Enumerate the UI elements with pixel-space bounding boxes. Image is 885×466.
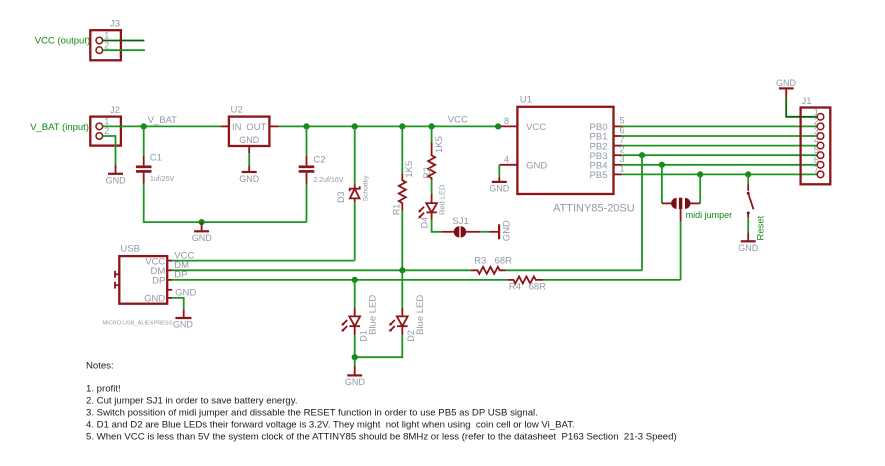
wire PB2 to J1 pin4 — [622, 145, 818, 147]
wire PB4 to J1 pin6 — [622, 164, 818, 166]
svg-text:6: 6 — [814, 155, 819, 165]
svg-text:J1: J1 — [802, 96, 812, 107]
ground (below Reset) — [738, 232, 759, 253]
svg-text:GND: GND — [192, 233, 213, 243]
node PB4/jumper — [659, 162, 665, 168]
wire PB5 to J1 pin7 — [622, 173, 818, 175]
svg-text:SJ1: SJ1 — [452, 216, 468, 227]
wire J3 pin1 — [103, 40, 145, 42]
ground (below U2) — [239, 166, 260, 184]
svg-text:V_BAT: V_BAT — [148, 115, 178, 126]
wire gnd to J1 pin1 — [786, 98, 817, 117]
pin NC — [167, 289, 172, 291]
svg-text:OUT: OUT — [246, 122, 266, 133]
wire VCC rail — [279, 125, 501, 127]
wire C1 top — [143, 126, 145, 156]
svg-text:ATTINY85-20SU: ATTINY85-20SU — [553, 202, 635, 214]
ground (above J1) — [776, 78, 797, 98]
svg-text:2: 2 — [104, 126, 109, 136]
svg-text:GND: GND — [526, 161, 547, 172]
svg-text:VCC: VCC — [526, 122, 546, 133]
svg-text:Red LED: Red LED — [437, 184, 446, 215]
svg-text:7: 7 — [814, 164, 819, 174]
wire USB VCC riser — [354, 260, 356, 262]
pin 4 GND — [499, 164, 517, 166]
regulator U2 — [221, 105, 279, 154]
svg-text:3. Switch possition of midi ju: 3. Switch possition of midi jumper and d… — [86, 408, 538, 419]
svg-text:1: 1 — [814, 107, 819, 117]
wire D1 bottom — [354, 335, 356, 357]
svg-text:2. Cut jumper SJ1 in order to: 2. Cut jumper SJ1 in order to save batte… — [86, 396, 298, 407]
pin 8 VCC — [500, 125, 517, 127]
wire midi jumper left riser — [661, 165, 663, 204]
pin 7 PB2 — [614, 145, 622, 147]
svg-text:GND: GND — [738, 243, 759, 253]
wire SJ1 to gnd — [480, 231, 489, 233]
svg-text:GND: GND — [239, 174, 260, 184]
svg-text:5. When VCC is less than 5V th: 5. When VCC is less than 5V the system c… — [86, 432, 677, 443]
svg-text:5: 5 — [814, 145, 819, 155]
switch Reset — [747, 174, 767, 240]
LED D4 red — [418, 184, 446, 228]
wire D3 top — [354, 126, 356, 184]
svg-text:J3: J3 — [110, 18, 120, 29]
capacitor C2 — [299, 155, 344, 185]
svg-text:4: 4 — [504, 154, 509, 164]
wire reset to gnd — [747, 218, 749, 233]
wire J3 pin2 — [103, 49, 145, 51]
wire USB DP — [172, 279, 507, 281]
svg-text:8: 8 — [504, 116, 509, 126]
IC U1 ATTINY85 — [499, 94, 634, 214]
svg-text:GND: GND — [489, 184, 510, 194]
svg-text:1. profit!: 1. profit! — [86, 383, 121, 394]
wire D1 top — [354, 280, 356, 308]
svg-text:2: 2 — [814, 116, 819, 126]
wire USB GND — [172, 298, 183, 310]
svg-text:DP: DP — [152, 276, 165, 287]
resistor R2 — [422, 136, 445, 180]
node DM/R1/D2 — [399, 267, 405, 273]
wire PB1 to J1 pin3 — [622, 135, 818, 137]
svg-text:2.2uf/16V: 2.2uf/16V — [313, 177, 343, 184]
svg-text:Blue LED: Blue LED — [415, 295, 426, 335]
wire R1 bottom to DM — [401, 211, 403, 271]
svg-text:C2: C2 — [313, 155, 325, 166]
ground (below J2) — [106, 164, 127, 185]
ground (below C1/C2) — [192, 222, 213, 243]
capacitor C1 — [136, 153, 175, 184]
svg-text:1: 1 — [104, 31, 109, 41]
svg-text:GND: GND — [173, 320, 194, 330]
pin 2 PB3 — [614, 154, 622, 156]
LED D1 blue — [341, 295, 378, 342]
svg-text:VCC: VCC — [448, 114, 468, 125]
svg-text:R2: R2 — [422, 167, 432, 179]
node R1 tap — [399, 123, 405, 129]
svg-text:Notes:: Notes: — [86, 360, 114, 371]
wire R2 to D4 — [431, 180, 433, 194]
wire PB0 to J1 pin2 — [622, 125, 818, 127]
svg-text:68R: 68R — [529, 281, 547, 292]
svg-text:GND: GND — [345, 377, 366, 387]
ground (below USB) — [173, 310, 194, 330]
wire D2 bottom — [355, 335, 403, 357]
svg-text:VCC (output): VCC (output) — [35, 36, 90, 47]
node U1 VCC tap — [495, 123, 501, 129]
svg-text:1K5: 1K5 — [404, 161, 415, 178]
node R2 tap — [429, 123, 435, 129]
pin 6 PB1 — [614, 135, 622, 137]
wire USB DM — [172, 269, 471, 271]
connector J1 — [801, 96, 831, 184]
shield stubs — [115, 271, 119, 278]
wire U2 gnd — [248, 153, 250, 165]
svg-text:U2: U2 — [231, 105, 243, 116]
wire R3 to PB3 riser — [506, 269, 642, 271]
ground (right of SJ1, rotated) — [490, 220, 513, 241]
pin DM — [167, 269, 172, 271]
solder jumper midi — [662, 198, 732, 222]
resistor R4 — [508, 276, 546, 292]
connector USB — [103, 244, 173, 327]
svg-text:5: 5 — [620, 116, 625, 126]
wire D4 to SJ1 — [432, 220, 442, 232]
wire D3 bottom to USB VCC — [354, 202, 356, 260]
diode D3 schottky — [336, 175, 370, 203]
svg-text:4. D1 and D2 are Blue LEDs the: 4. D1 and D2 are Blue LEDs their forward… — [86, 420, 575, 431]
wire C2 bottom — [306, 184, 308, 223]
wire R2 top — [431, 126, 433, 142]
pin 1 PB5 — [614, 173, 622, 175]
svg-text:D4: D4 — [420, 217, 430, 229]
resistor R3 — [471, 255, 512, 274]
notes text — [86, 360, 677, 442]
wire C2 top — [306, 126, 308, 156]
pin GND — [167, 297, 172, 299]
svg-text:1K5: 1K5 — [434, 136, 445, 153]
svg-text:3: 3 — [814, 126, 819, 136]
wire USB VCC — [172, 260, 354, 262]
svg-text:Schottky: Schottky — [363, 175, 370, 202]
pin VCC — [167, 260, 172, 262]
pin 5 PB0 — [614, 125, 622, 127]
wire gnd stub — [354, 357, 356, 366]
pin DP — [167, 279, 172, 281]
svg-text:PB5: PB5 — [590, 170, 608, 181]
svg-text:GND: GND — [776, 78, 797, 88]
svg-text:1uf/25V: 1uf/25V — [150, 176, 174, 183]
svg-text:GND: GND — [106, 175, 127, 185]
svg-text:MICRO-USB_ALIEXPRESS: MICRO-USB_ALIEXPRESS — [103, 320, 173, 326]
wire DM riser — [641, 155, 643, 270]
wire D2 column from DM — [401, 270, 403, 308]
LED D2 blue — [389, 295, 426, 342]
wire C1 bottom to gnd rail — [144, 184, 307, 223]
svg-text:midi jumper: midi jumper — [686, 210, 733, 220]
svg-text:C1: C1 — [150, 153, 162, 164]
svg-text:USB: USB — [120, 244, 140, 255]
wire midi jumper right riser — [699, 174, 701, 203]
node D1/D2 gnd — [352, 354, 358, 360]
wire R4 to midi center riser — [543, 279, 680, 281]
svg-text:IN: IN — [232, 122, 242, 133]
connector J2 — [90, 105, 121, 146]
node gnd junction — [199, 219, 205, 225]
svg-text:R3: R3 — [474, 255, 486, 266]
wire midi center to DP — [680, 222, 682, 280]
wire R1 top — [401, 126, 403, 173]
svg-text:R1: R1 — [391, 204, 401, 216]
node DP/D1 — [352, 277, 358, 283]
svg-text:D3: D3 — [336, 191, 346, 203]
node C2 tap — [303, 123, 309, 129]
node PB5/jumper — [697, 171, 703, 177]
node PB5/reset — [745, 171, 751, 177]
svg-text:GND: GND — [239, 135, 260, 145]
pin 3 PB4 — [614, 164, 622, 166]
wire PB3 to J1 pin5 — [622, 154, 818, 156]
wire J2 pin1 to U2 IN — [103, 125, 221, 127]
ground (below U1) — [489, 177, 510, 194]
resistor R1 — [391, 161, 414, 215]
svg-text:V_BAT (input): V_BAT (input) — [30, 122, 89, 133]
svg-text:GND: GND — [144, 294, 165, 305]
svg-text:1: 1 — [104, 117, 109, 127]
svg-text:J2: J2 — [110, 105, 120, 116]
ground (below D1/D2) — [345, 366, 366, 387]
svg-text:2: 2 — [104, 40, 109, 50]
svg-text:Reset: Reset — [756, 215, 767, 240]
wire J2 pin2 down — [103, 136, 116, 164]
connector J3 — [90, 18, 121, 60]
wire U1 gnd — [498, 165, 500, 177]
node D3 tap — [352, 123, 358, 129]
solder jumper SJ1 — [441, 216, 480, 237]
svg-text:R4: R4 — [509, 281, 521, 292]
svg-text:GND: GND — [502, 220, 513, 241]
node PB3/DM — [639, 152, 645, 158]
svg-text:Blue LED: Blue LED — [367, 295, 378, 335]
node V_BAT junction — [141, 123, 147, 129]
svg-text:4: 4 — [814, 136, 819, 146]
svg-text:68R: 68R — [495, 255, 513, 266]
svg-text:U1: U1 — [520, 94, 532, 105]
